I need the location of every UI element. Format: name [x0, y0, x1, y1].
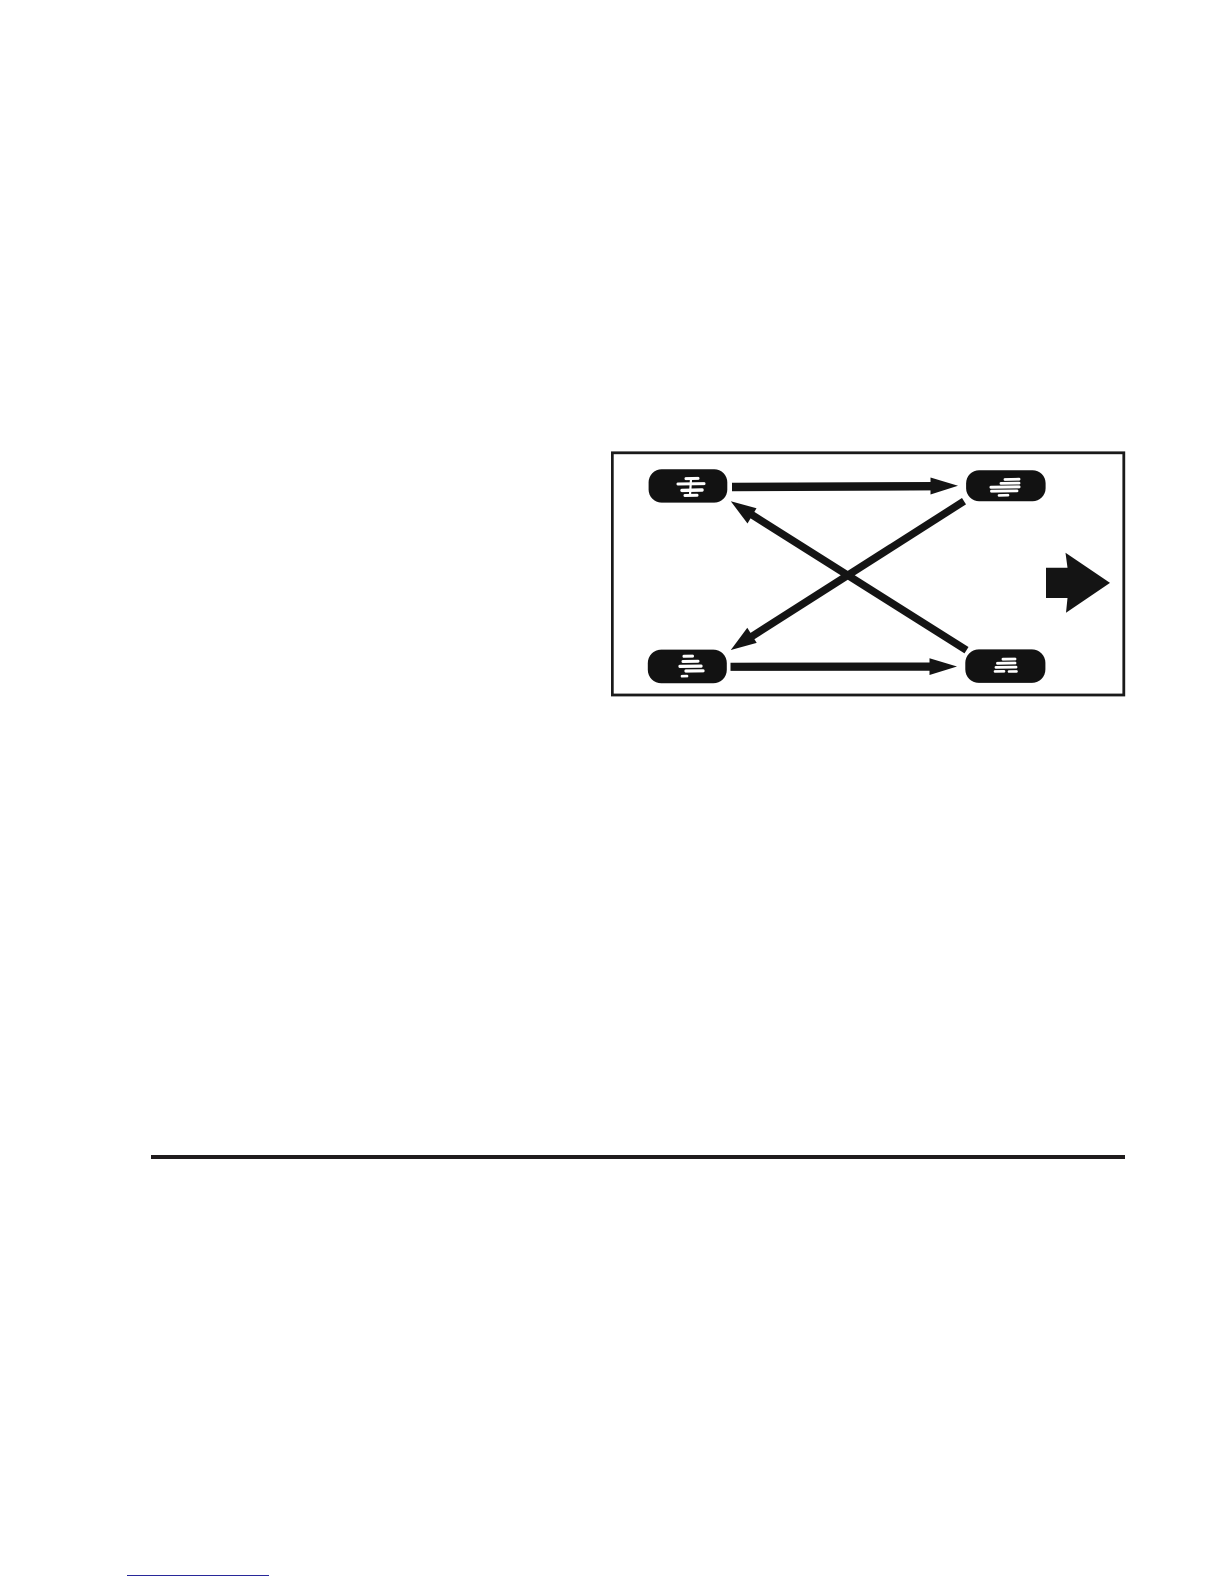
tire front-right (top-right) — [966, 470, 1046, 501]
tire rotation diagram — [611, 451, 1126, 697]
big direction-of-travel arrow (right) — [1046, 553, 1110, 613]
diagram frame — [612, 453, 1124, 695]
arrow diagonal: front-right down to rear-left — [731, 501, 964, 650]
arrow top: front-left to front-right — [732, 478, 958, 495]
footer hyperlink underline — [127, 1575, 270, 1577]
arrow diagonal: rear-right up to front-left — [731, 501, 967, 650]
tire front-left (top-left) — [649, 469, 728, 502]
arrow bottom: rear-left to rear-right — [731, 658, 958, 675]
tire rear-right (bottom-right) — [965, 649, 1045, 683]
section divider rule — [151, 1155, 1125, 1159]
tire rear-left (bottom-left) — [648, 650, 727, 684]
